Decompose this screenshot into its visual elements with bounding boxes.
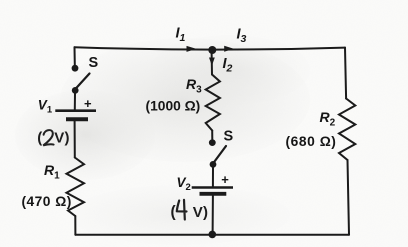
switch S1 contact top xyxy=(72,65,79,72)
resistor R3 zigzag xyxy=(206,75,220,131)
battery V2 short plate xyxy=(200,192,227,196)
node top junction xyxy=(208,46,216,54)
value 2V handwritten xyxy=(37,129,69,146)
battery V2 long plate xyxy=(192,186,233,189)
wire left bottom xyxy=(74,216,76,235)
switch S2 contact top xyxy=(209,139,216,146)
wire top horizontal xyxy=(75,47,346,49)
switch S1 blade xyxy=(77,74,90,88)
arrow I1 xyxy=(187,46,197,52)
wire R3 to switch S2 xyxy=(211,131,213,140)
switch S2 blade xyxy=(215,146,227,162)
battery V1 short plate xyxy=(66,117,88,121)
svg-text:S: S xyxy=(89,55,99,71)
svg-text:+: + xyxy=(84,96,92,111)
battery V1 long plate xyxy=(55,109,96,112)
svg-text:(: ( xyxy=(37,130,42,147)
svg-text:(: ( xyxy=(171,204,177,221)
svg-text:(470 Ω): (470 Ω) xyxy=(22,194,72,209)
arrow I2 xyxy=(209,58,215,66)
wire node to R3 xyxy=(211,52,213,75)
switch S1 contact bottom xyxy=(72,87,79,94)
value 4 handwritten digit xyxy=(177,200,187,220)
arrow I3 xyxy=(224,46,234,52)
svg-text:+: + xyxy=(221,172,229,187)
value 2 handwritten digit xyxy=(43,130,53,145)
svg-text:V): V) xyxy=(193,204,208,221)
value 4V handwritten xyxy=(171,204,209,222)
svg-text:(680 Ω): (680 Ω) xyxy=(286,134,337,149)
svg-text:S: S xyxy=(224,129,234,145)
wire switch S2 to battery V2 xyxy=(212,168,214,187)
wire right vertical top xyxy=(345,48,346,99)
svg-text:V): V) xyxy=(54,129,69,146)
wire top-left stub xyxy=(74,47,76,65)
resistor R1 zigzag xyxy=(67,158,85,217)
wire left between switch and battery xyxy=(74,93,76,109)
wire battery V2 to bottom xyxy=(212,196,214,235)
wire bottom horizontal xyxy=(75,234,349,236)
resistor R2 zigzag xyxy=(339,99,355,161)
node bottom junction xyxy=(209,231,217,239)
svg-text:(1000 Ω): (1000 Ω) xyxy=(146,99,201,114)
wire right vertical bottom xyxy=(348,160,350,235)
wire left battery to R1 xyxy=(74,121,76,158)
switch S2 contact bottom xyxy=(210,161,217,168)
